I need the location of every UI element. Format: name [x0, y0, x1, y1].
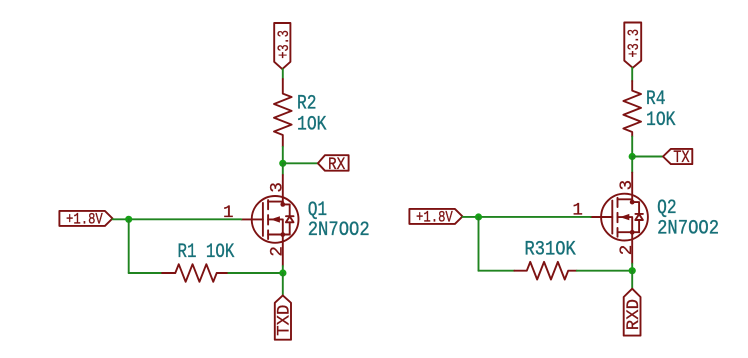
wire to R3 left lead [479, 270, 515, 272]
wire node to RX flag [283, 162, 318, 164]
label Q2 2N7002 [657, 197, 719, 240]
node TXD junction [279, 269, 286, 276]
resistor R1 [162, 264, 228, 282]
svg-text:TXD: TXD [274, 305, 294, 336]
svg-text:R2: R2 [297, 92, 317, 115]
svg-text:1OK: 1OK [297, 113, 327, 136]
resistor R3 [514, 262, 577, 280]
svg-text:1OK: 1OK [646, 109, 676, 132]
node gate junction (right) [475, 213, 482, 220]
transistor Q1 [241, 175, 298, 266]
wire +3.3 flag to R2 (left) [282, 69, 284, 79]
wire +3.3 flag to R4 [631, 68, 633, 81]
label R4 value 10K [646, 88, 676, 132]
wire to R1 left lead [129, 272, 162, 274]
svg-text:+3.3: +3.3 [625, 29, 643, 58]
supply flag +3.3 (left) [274, 23, 293, 69]
svg-text:TX: TX [673, 148, 690, 168]
svg-text:2: 2 [617, 245, 637, 256]
wire node to TX flag [632, 156, 663, 158]
wire +1.8V to Q2 gate [463, 216, 591, 218]
svg-text:+3.3: +3.3 [275, 30, 293, 59]
wire R3 right lead to source node [577, 270, 632, 272]
node gate junction (left) [125, 216, 132, 223]
svg-text:RXD: RXD [624, 299, 644, 330]
wire R1 right lead to source node [228, 272, 282, 274]
wire gate junction down to R1 [128, 219, 130, 273]
wire node TX to Q2 drain [631, 157, 633, 173]
wire +1.8V to Q1 gate [113, 218, 242, 220]
supply flag +1.8V (right) [409, 209, 462, 227]
wire Q2 source to node [631, 264, 633, 271]
svg-text:R1 1OK: R1 1OK [178, 241, 235, 264]
svg-text:+1.8V: +1.8V [66, 211, 103, 229]
node TX junction [629, 153, 636, 160]
svg-text:2N7OO2: 2N7OO2 [657, 217, 719, 240]
wire Q1 source to node [282, 266, 284, 273]
svg-text:RX: RX [328, 155, 346, 175]
resistor R4 [623, 81, 641, 137]
svg-text:3: 3 [617, 180, 637, 191]
svg-text:2N7OO2: 2N7OO2 [308, 219, 370, 242]
net flag RX [318, 155, 349, 175]
svg-text:+1.8V: +1.8V [416, 209, 453, 227]
node RXD junction [629, 267, 636, 274]
wire R4 to node TX [631, 137, 633, 157]
supply flag +1.8V (left) [59, 211, 112, 229]
wire node to RXD flag [631, 271, 633, 289]
svg-text:2: 2 [267, 246, 287, 257]
wire node to TXD flag [282, 273, 284, 295]
supply flag +3.3 (right) [624, 23, 643, 68]
wire R2 to node RX [282, 147, 284, 164]
node RX junction [279, 160, 286, 167]
wire node RX to Q1 drain [282, 163, 284, 175]
svg-text:R31OK: R31OK [525, 239, 576, 262]
svg-text:3: 3 [267, 182, 287, 193]
svg-text:R4: R4 [646, 88, 666, 111]
net flag TX [663, 148, 692, 168]
net flag RXD [624, 289, 644, 336]
resistor R2 [274, 79, 292, 147]
label R2 value 10K [297, 92, 327, 136]
label Q1 2N7002 [308, 199, 370, 242]
net flag TXD [274, 295, 294, 339]
transistor Q2 [591, 173, 648, 264]
wire gate junction down to R3 [478, 217, 480, 271]
